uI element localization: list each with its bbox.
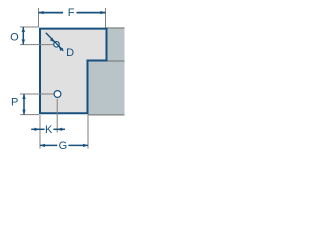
hole H1 [54, 42, 60, 48]
extension line F right [105, 8, 107, 28]
dimension F line [39, 11, 106, 14]
mating part lower fill [89, 61, 125, 115]
extension line K right [56, 99, 58, 133]
mating part middle edge [107, 60, 125, 62]
svg-text:G: G [59, 140, 68, 152]
svg-text:D: D [66, 47, 74, 59]
extension line P top [20, 93, 54, 95]
dimension O line [22, 27, 25, 45]
extension line G right [87, 115, 89, 148]
dimension G line [40, 144, 88, 147]
mating part bottom edge [88, 114, 125, 116]
dimension P line [22, 94, 25, 115]
svg-text:P: P [11, 96, 18, 108]
dimension D leader [46, 33, 64, 51]
extension line O top [20, 26, 39, 28]
svg-text:F: F [68, 7, 75, 19]
extension line O bottom [20, 44, 53, 46]
svg-text:K: K [45, 124, 53, 136]
mating part upper fill [108, 28, 125, 61]
dimension K line [31, 128, 65, 131]
extension line K G left [39, 115, 41, 149]
mating part top edge [106, 27, 125, 29]
svg-text:O: O [10, 31, 19, 43]
hole H2 [54, 91, 61, 98]
extension line P bottom [20, 114, 39, 116]
extension line F left [38, 8, 40, 28]
panel plate [40, 29, 107, 114]
